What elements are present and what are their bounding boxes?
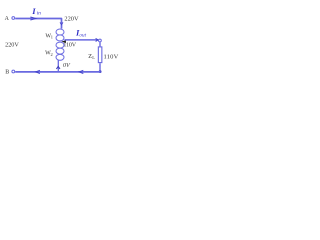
terminal A xyxy=(12,17,15,20)
svg-text:L: L xyxy=(92,55,95,60)
bottom wire B to load xyxy=(15,71,100,73)
svg-text:220V: 220V xyxy=(5,42,19,49)
load Z_L box xyxy=(98,47,102,63)
svg-text:B: B xyxy=(5,69,9,75)
winding W2 loop 3 xyxy=(56,54,64,60)
junction dot xyxy=(99,70,102,73)
svg-text:220V: 220V xyxy=(64,16,79,23)
svg-text:2: 2 xyxy=(51,52,53,57)
svg-text:in: in xyxy=(37,11,42,17)
svg-text:110V: 110V xyxy=(63,43,76,49)
winding W1 loop 1 xyxy=(56,29,64,35)
wire: load bottom down to bottom rail xyxy=(99,63,101,71)
arrow left on bottom wire (left) xyxy=(36,70,40,73)
winding W2 loop 1 xyxy=(56,42,64,48)
arrow left on bottom wire (right) xyxy=(79,70,83,73)
winding W2 loop 2 xyxy=(56,48,64,54)
wire: A to top-right corner, down to winding xyxy=(15,19,61,29)
svg-text:I: I xyxy=(31,6,36,16)
arrow up on bottom lead xyxy=(56,66,60,69)
tap terminal circle xyxy=(99,39,102,42)
svg-text:out: out xyxy=(79,33,86,39)
tap arrow (black) xyxy=(61,40,66,43)
svg-text:A: A xyxy=(5,16,10,22)
tap wire to load terminal xyxy=(65,39,99,41)
arrow down on vertical wire xyxy=(60,22,63,24)
arrow right near terminal xyxy=(96,38,99,41)
svg-text:110V: 110V xyxy=(104,53,119,60)
svg-text:0V: 0V xyxy=(63,62,71,69)
arrow I_in on top wire xyxy=(30,17,35,20)
wire: terminal down to load xyxy=(99,42,101,46)
winding W1 loop 2 xyxy=(56,35,64,41)
svg-text:1: 1 xyxy=(51,35,53,40)
wire: winding bottom lead xyxy=(57,60,59,72)
terminal B xyxy=(12,70,15,73)
